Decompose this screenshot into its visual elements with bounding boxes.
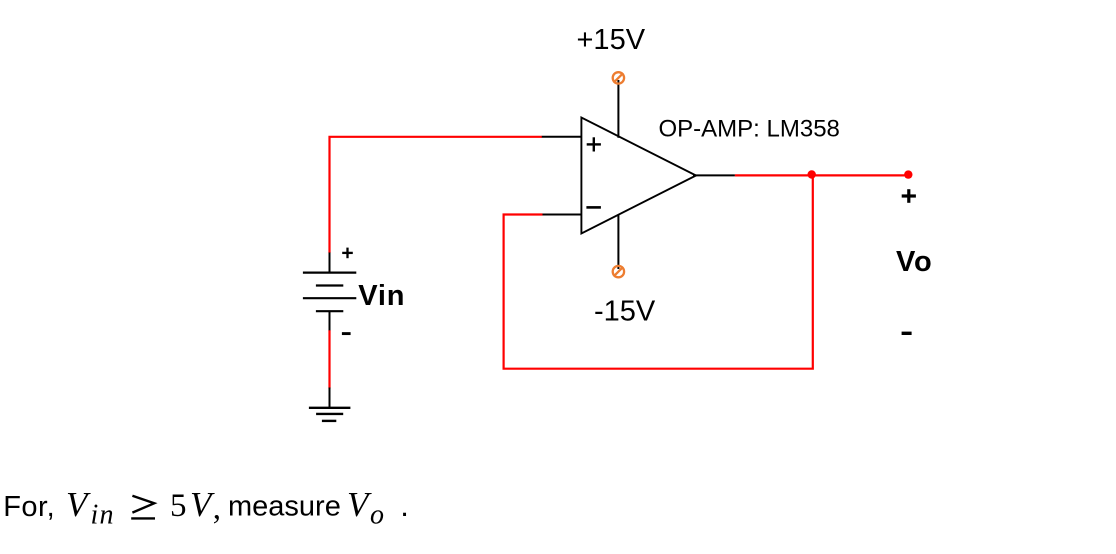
op-amp plus input marker xyxy=(587,137,601,151)
svg-text:For,: For, xyxy=(3,491,55,523)
wire feedback output to inverting input (red) xyxy=(504,175,813,368)
output minus marker xyxy=(902,332,912,335)
terminal dot Vo+ xyxy=(904,170,912,178)
ground bar 2 xyxy=(316,413,343,415)
junction dot at output node xyxy=(808,170,816,178)
svg-text:in: in xyxy=(91,500,115,531)
svg-text:OP-AMP: LM358: OP-AMP: LM358 xyxy=(659,116,840,143)
formula For, Vin >= 5V, measure Vo. xyxy=(3,485,409,531)
svg-text:measure: measure xyxy=(228,491,341,523)
ground bar 1 xyxy=(309,407,351,409)
op-amp U1 triangle xyxy=(581,118,696,234)
svg-text:5: 5 xyxy=(170,488,187,524)
battery Vin plate 2 short xyxy=(316,284,343,286)
output plus marker xyxy=(902,189,916,203)
terminal -15V (orange circle with slash) xyxy=(613,266,624,277)
terminal +15V (orange circle with slash) xyxy=(613,72,624,83)
pin stub op-amp inverting input (black) xyxy=(542,214,581,216)
svg-text:-15V: -15V xyxy=(594,295,656,327)
pin stub op-amp output (black) xyxy=(693,174,735,176)
svg-text:o: o xyxy=(370,500,384,531)
pin stub op-amp V- power (black) xyxy=(617,215,619,269)
svg-text:V: V xyxy=(190,485,215,524)
battery Vin plate 4 short xyxy=(316,310,343,312)
svg-text:+15V: +15V xyxy=(577,24,646,56)
svg-text:.: . xyxy=(400,488,409,523)
wire battery negative to ground (red) xyxy=(328,330,330,389)
battery minus polarity marker xyxy=(342,332,351,335)
ground bar 3 xyxy=(322,420,336,422)
pin stub op-amp V+ power (black) xyxy=(617,80,619,138)
wire op-amp output to Vo terminal (red) xyxy=(735,174,908,176)
svg-text:Vin: Vin xyxy=(358,280,405,312)
wire Vin+ to op-amp noninverting input (red) xyxy=(330,137,543,253)
pin stub op-amp noninverting input (black) xyxy=(542,136,582,138)
ground lead (black) xyxy=(329,388,331,408)
battery Vin lead top (black) xyxy=(329,253,331,273)
svg-text:V: V xyxy=(347,485,372,524)
svg-text:,: , xyxy=(213,491,221,527)
op-amp minus input marker xyxy=(586,206,601,209)
battery Vin plate 3 long xyxy=(303,297,356,299)
battery Vin lead bottom (black) xyxy=(329,311,331,330)
battery Vin plate 1 long xyxy=(303,272,356,274)
svg-text:Vo: Vo xyxy=(896,246,933,278)
svg-text:V: V xyxy=(66,485,91,524)
battery plus polarity marker xyxy=(342,248,353,259)
